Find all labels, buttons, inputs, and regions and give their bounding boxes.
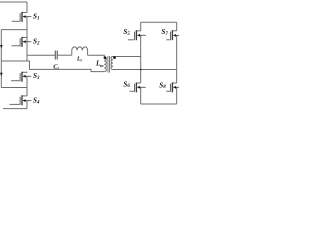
wire tank branch to capacitor xyxy=(27,54,55,56)
wire bottom rail xyxy=(3,108,27,110)
transformer primary polarity dot xyxy=(104,56,107,59)
transistor S8 xyxy=(166,82,179,92)
transformer secondary winding xyxy=(111,57,113,70)
svg-text:S2: S2 xyxy=(33,38,40,47)
wire left input rail xyxy=(0,30,2,88)
transistor S1 xyxy=(12,12,32,22)
svg-text:S4: S4 xyxy=(33,97,40,106)
transistor S6 xyxy=(130,82,146,92)
wire secondary bottom to right bridge right leg xyxy=(113,69,177,71)
svg-text:Lm: Lm xyxy=(95,61,104,68)
wire right bridge right rail segments x=176.7 xyxy=(176,22,178,104)
inductor Lr xyxy=(72,47,88,55)
transformer Lm primary winding xyxy=(104,57,106,71)
wire rung between S3 and S4 xyxy=(1,87,27,89)
wire rung between S1 and S2 xyxy=(1,29,27,31)
wire right bridge left rail segments x=140.7 xyxy=(140,22,142,104)
wire mid rung and tank return to transformer primary bottom xyxy=(1,61,104,72)
svg-text:S1: S1 xyxy=(33,12,39,21)
svg-text:Lr: Lr xyxy=(76,56,83,62)
svg-text:S7: S7 xyxy=(161,28,168,37)
wire secondary top to right bridge left leg xyxy=(113,56,141,58)
transistor S5 xyxy=(128,30,146,40)
transformer secondary polarity dot xyxy=(113,56,116,59)
svg-text:S5: S5 xyxy=(123,28,130,37)
transistor S3 xyxy=(11,72,31,82)
svg-text:S6: S6 xyxy=(123,80,130,89)
transistor S4 xyxy=(10,95,32,105)
transistor S7 xyxy=(166,30,179,40)
wire main left-bridge rail segments x=27 xyxy=(26,2,28,109)
svg-text:S3: S3 xyxy=(33,72,40,81)
current arrow lower on left input rail xyxy=(0,73,3,76)
wire top input rail xyxy=(0,1,27,3)
transformer core lines xyxy=(108,56,110,73)
current arrow upper on left input rail xyxy=(0,45,3,48)
wire inductor to primary top xyxy=(88,55,105,57)
svg-text:Cr: Cr xyxy=(53,64,59,71)
wire right bridge bottom bus xyxy=(141,103,177,105)
transistor S2 xyxy=(11,37,31,47)
junction blob at crossing of secondary-bottom wire and left-leg rail xyxy=(140,69,142,71)
svg-text:S8: S8 xyxy=(159,81,166,90)
wire right bridge top bus xyxy=(141,21,177,23)
wire capacitor to inductor xyxy=(57,54,72,56)
capacitor Cr plates xyxy=(55,51,57,60)
